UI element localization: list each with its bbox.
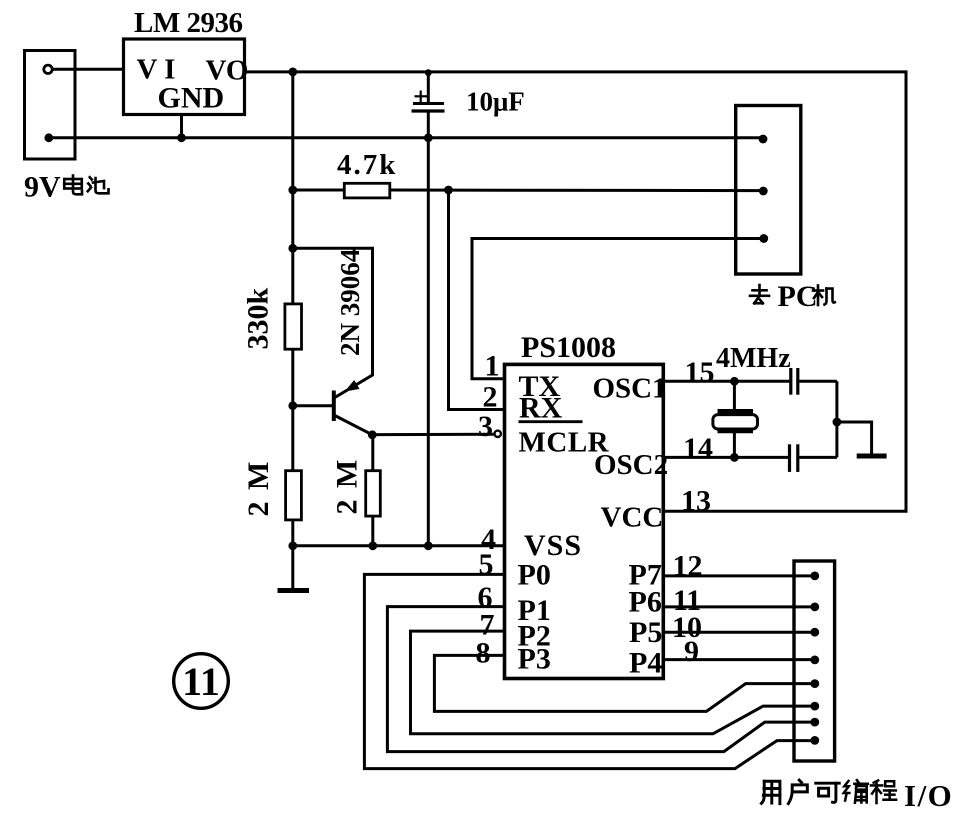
svg-text:P3: P3 — [518, 643, 551, 676]
svg-text:2: 2 — [483, 381, 498, 414]
svg-text:P6: P6 — [629, 586, 662, 619]
svg-text:11: 11 — [182, 659, 220, 704]
svg-text:2 M: 2 M — [331, 458, 364, 515]
svg-text:VSS: VSS — [524, 529, 582, 562]
svg-text:4.7k: 4.7k — [337, 149, 397, 181]
svg-text:330k: 330k — [242, 288, 275, 350]
svg-text:OSC1: OSC1 — [593, 373, 667, 405]
svg-text:OSC2: OSC2 — [594, 449, 668, 481]
svg-text:P4: P4 — [629, 647, 662, 680]
svg-text:3: 3 — [478, 410, 493, 443]
svg-text:PC: PC — [778, 280, 818, 313]
svg-text:13: 13 — [681, 485, 711, 518]
svg-text:15: 15 — [685, 356, 715, 389]
svg-text:VCC: VCC — [601, 502, 664, 534]
svg-text:8: 8 — [476, 637, 491, 670]
svg-text:12: 12 — [673, 550, 703, 583]
svg-text:P0: P0 — [518, 559, 551, 592]
svg-text:RX: RX — [519, 392, 563, 425]
svg-text:2N 39064: 2N 39064 — [335, 249, 365, 356]
svg-text:LM 2936: LM 2936 — [134, 7, 242, 39]
svg-text:14: 14 — [683, 432, 713, 465]
svg-text:2 M: 2 M — [242, 460, 275, 517]
svg-text:PS1008: PS1008 — [521, 331, 616, 364]
svg-text:10μF: 10μF — [466, 87, 525, 117]
svg-text:1: 1 — [485, 350, 500, 383]
svg-text:GND: GND — [158, 82, 225, 115]
svg-text:9V: 9V — [24, 171, 61, 204]
svg-text:P5: P5 — [629, 616, 662, 649]
svg-text:I/O: I/O — [904, 778, 953, 813]
svg-text:5: 5 — [479, 548, 494, 581]
svg-text:4MHz: 4MHz — [716, 343, 791, 374]
svg-text:9: 9 — [684, 635, 699, 668]
